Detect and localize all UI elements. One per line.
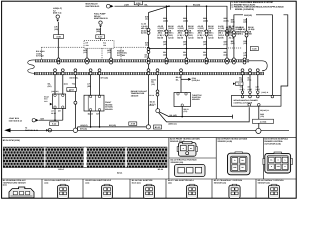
svg-text:B1-17 FUEL INJECTOR NO.4: B1-17 FUEL INJECTOR NO.4 (168, 179, 195, 182)
svg-text:(1GE)-11: (1GE)-11 (262, 91, 269, 94)
svg-text:(1G): (1G) (145, 18, 149, 21)
svg-text:(1G): (1G) (54, 28, 58, 31)
wire mid horizontal B/Y (78, 111, 149, 130)
svg-text:B2-06 B/L: B2-06 B/L (70, 76, 80, 79)
svg-text:SENSOR: SENSOR (131, 94, 139, 97)
svg-text:(1G) (1G): (1G) (1G) (51, 90, 59, 93)
connector symbol on F2 wire (46, 129, 51, 132)
svg-text:(1G): (1G) (45, 181, 49, 184)
wire main relay feed L/OR (115, 3, 228, 6)
svg-text:NO.3 (1G): NO.3 (1G) (132, 181, 141, 184)
wire G/W bracket (234, 14, 288, 28)
svg-text:SYSTEM: SYSTEM (36, 55, 44, 58)
svg-text:SENSOR: SENSOR (192, 98, 200, 101)
row1/row2 border (2, 178, 297, 180)
svg-text:SENSOR (1G): SENSOR (1G) (258, 181, 271, 184)
row1 top border (2, 137, 297, 139)
wire joint box to sensor (39, 109, 63, 121)
labels on PCM feed wire (149, 94, 154, 107)
svg-text:(1G): (1G) (224, 43, 228, 46)
row2 panel header (132, 179, 153, 184)
PCM panel header (3, 139, 20, 142)
label L/R right column (243, 52, 247, 57)
splice connector on bus 2 (98, 69, 101, 75)
svg-text:(1GE): (1GE) (248, 88, 253, 91)
svg-text:A (1GE): A (1GE) (260, 121, 267, 124)
svg-text:B/Y(1G): B/Y(1G) (109, 124, 116, 127)
row2 panel header (214, 179, 243, 184)
row2 panel header (168, 179, 195, 184)
svg-text:(1G): (1G) (260, 115, 264, 118)
splice connector on bus 1 (205, 58, 208, 64)
wire right feed column G/W (238, 18, 255, 59)
panel front heated oxygen sensor LH header (218, 138, 248, 143)
splice connector on bus 1 (185, 58, 188, 64)
svg-text:(1G): (1G) (184, 110, 188, 113)
wire fuel pump relay drop B/W (96, 28, 100, 41)
connector label B2-13 below node (154, 125, 162, 129)
splice connector on bus 1 (233, 58, 236, 64)
front heated oxygen sensor LH box (53, 94, 66, 109)
svg-text:(1GE) B-1: (1GE) B-1 (192, 79, 200, 82)
svg-text:(1G): (1G) (3, 184, 7, 187)
connector label A2 box (253, 119, 274, 123)
svg-text:(1G): (1G) (243, 42, 247, 45)
labels B/L B G/W (239, 76, 251, 81)
splice circles above actuator (241, 91, 268, 94)
splice connector on bus 1 (226, 58, 229, 64)
EGI MAIN CONN label (36, 50, 45, 57)
svg-text:(2G): (2G) (48, 85, 52, 88)
node H-06 label (53, 7, 62, 14)
svg-text:(1G): (1G) (231, 42, 235, 45)
connector label A-12 (50, 122, 59, 126)
labels below LH sensor box (51, 110, 62, 115)
splice connector on bus 2 (61, 69, 64, 75)
svg-text:(1G): (1G) (151, 83, 155, 86)
svg-text:(1G): (1G) (96, 30, 100, 33)
connector label A-07 (96, 35, 105, 39)
svg-text:L/OR: L/OR (124, 3, 129, 6)
svg-text:B2-04 PCM (1GE): B2-04 PCM (1GE) (3, 139, 20, 142)
labels under RH box (88, 112, 100, 115)
wire TPS bottom drop (181, 107, 188, 118)
svg-text:B2-05: B2-05 (178, 36, 184, 39)
svg-text:IGNITION B-11: IGNITION B-11 (94, 17, 109, 20)
svg-text:(2G): (2G) (87, 85, 91, 88)
splice connector on bus 1 (165, 58, 168, 64)
PCM grid pin labels (58, 168, 163, 175)
svg-text:B/L (4G): B/L (4G) (170, 114, 178, 117)
connector drawing fuel injector no.1 (57, 184, 68, 198)
node connector 1-1D (146, 125, 150, 129)
label B/L(1G) on top bus (193, 3, 201, 6)
svg-text:(1G): (1G) (86, 181, 90, 184)
connector drawing throttle position sensor (175, 164, 206, 176)
svg-text:B2(1GE)-11: B2(1GE)-11 (260, 109, 269, 112)
intake manifold runner control actuator box (232, 95, 282, 106)
splice connector on bus 2 (54, 69, 57, 75)
connector drawing camshaft position sensor (268, 184, 279, 198)
svg-text:(1G0): (1G0) (183, 20, 188, 23)
wire ignition coil feed column 4 (218, 6, 235, 58)
svg-text:(1G): (1G) (107, 51, 111, 54)
row2 panel header (258, 179, 284, 184)
svg-text:(1G): (1G) (163, 54, 167, 57)
connector label X-04 on relay wire (134, 1, 142, 6)
svg-text:SENSOR: SENSOR (105, 108, 113, 111)
wire drop to LH sensor terminal 1 (48, 75, 55, 94)
wire drop x157.5 to node (150, 75, 159, 109)
svg-text:IGNITION B-16: IGNITION B-16 (9, 119, 22, 122)
svg-text:(1G): (1G) (168, 181, 172, 184)
wires fuse drops to bus 1 (83, 48, 111, 58)
fuel pump relay label (94, 13, 109, 21)
splice connector on bus 2 (89, 69, 92, 75)
joint box label (9, 117, 22, 122)
svg-text:(B/W 1G): (B/W 1G) (169, 123, 177, 126)
wire ignition coil feed column 2 (178, 5, 195, 58)
connector drawing fuel injector no.2 (101, 184, 112, 198)
svg-text:SENSOR (LH,B): SENSOR (LH,B) (218, 140, 233, 143)
splice connector on bus 2 (180, 69, 183, 75)
svg-text:MODEL (CANADA): MODEL (CANADA) (235, 8, 254, 11)
svg-text:B2-05: B2-05 (158, 36, 164, 39)
splice connector on bus 2 (249, 69, 252, 75)
svg-text:B/Y(1G): B/Y(1G) (80, 127, 87, 130)
svg-text:B2-05: B2-05 (218, 36, 224, 39)
connector drawing oxygen sensor RH (177, 141, 197, 156)
svg-text:A2-16: A2-16 (208, 36, 214, 39)
wire drop to RH sensor terminal 1 (87, 75, 91, 95)
wire right feed column B/R (226, 18, 243, 59)
svg-text:B (1G): B (1G) (150, 103, 156, 106)
splice connector on bus 2 (241, 69, 244, 75)
splice connector on bus 2 (156, 69, 159, 75)
splice connector on bus 2 (256, 69, 259, 75)
svg-text:B2-13: B2-13 (155, 126, 161, 129)
off-page arrow F2 (4, 127, 38, 133)
svg-text:(1G): (1G) (183, 43, 187, 46)
svg-text:(1GE): (1GE) (255, 88, 260, 91)
svg-text:(1G): (1G) (203, 54, 207, 57)
svg-text:A2-16: A2-16 (188, 36, 194, 39)
splice connector on bus 2 (147, 69, 150, 75)
svg-text:(IGN 7-1): (IGN 7-1) (53, 12, 62, 15)
labels above LH sensor box (51, 90, 71, 93)
fuel pump relay connector symbol (99, 21, 102, 28)
wire ignition coil feed column 1 (158, 5, 175, 58)
svg-text:IGNITION B-10: IGNITION B-10 (86, 5, 101, 8)
svg-text:(1G): (1G) (243, 21, 247, 24)
node circled C (156, 109, 160, 113)
rear oxygen sensor note + arrow (44, 96, 52, 106)
splice connector on bus 1 (57, 58, 60, 64)
big node bottom right (256, 128, 261, 133)
splice connector on bus 1 (147, 58, 150, 64)
wire right tall vertical B (281, 28, 288, 95)
front heated oxygen sensor RH box (84, 95, 104, 111)
wire long bottom B/Y (11, 127, 290, 130)
svg-text:(1G): (1G) (183, 54, 187, 57)
dashed line right column (228, 47, 242, 49)
wire into TPS box (180, 79, 182, 92)
svg-text:B1-01 FUEL INJECTOR NO.1: B1-01 FUEL INJECTOR NO.1 (45, 179, 71, 182)
svg-text:A2-16: A2-16 (168, 36, 174, 39)
connector drawing fuel injector no.3 (143, 184, 154, 198)
svg-text:B2-16: B2-16 (149, 94, 154, 97)
svg-text:G/W(1G): G/W(1G) (244, 14, 252, 17)
connector label A-20 right column (250, 47, 258, 51)
node splice on bottom wire (73, 128, 77, 132)
main relay connector symbol (106, 4, 113, 8)
svg-text:MID: MID (248, 33, 252, 36)
throttle position sensor feed (176, 75, 200, 82)
engine coolant temperature sensor label (131, 90, 148, 97)
connector label A-06 on left wire (54, 35, 64, 39)
svg-text:(1G): (1G) (145, 44, 149, 47)
svg-text:(1G): (1G) (163, 43, 167, 46)
wires drop to actuator (243, 75, 258, 96)
wire actuator right drop (259, 106, 269, 128)
label B2-06 B/L mid (70, 76, 80, 79)
label right of RH box (105, 101, 113, 111)
wire drop to RH sensor terminal 2 (100, 75, 109, 95)
svg-text:SYSTEM: SYSTEM (117, 54, 125, 57)
svg-text:(1G): (1G) (224, 54, 228, 57)
splice connector on bus 1 (243, 58, 246, 64)
dashed harness boundary line (42, 47, 149, 59)
throttle position sensor box (174, 93, 191, 107)
joint box connector symbol (32, 119, 39, 122)
connector drawing coolant temp sensor (9, 187, 34, 198)
harness bus bar 1 (28, 60, 268, 74)
panel front heated oxygen sensor RH header (170, 138, 200, 143)
svg-text:(1G): (1G) (243, 54, 247, 57)
EGI fuse block dashed enclosure (84, 41, 114, 49)
connector label A-05 on mid wire (129, 122, 137, 126)
svg-text:B/Y (1G): B/Y (1G) (101, 76, 109, 79)
connector drawing fuel injector no.4 (186, 184, 197, 198)
svg-text:(1G): (1G) (231, 21, 235, 24)
svg-text:B2-05: B2-05 (141, 32, 146, 35)
row2 panel header (3, 179, 27, 186)
svg-text:B/L(1G): B/L(1G) (193, 3, 201, 6)
connector drawing runner control actuator (263, 152, 293, 173)
svg-text:ACTUATOR (1GE): ACTUATOR (1GE) (264, 142, 281, 145)
main relay label (86, 3, 101, 8)
splice connector on bus 1 (86, 58, 89, 64)
wire long vertical feed x=148.5 (141, 13, 150, 126)
svg-text:B/W: B/W (41, 117, 45, 120)
svg-text:Y/G: Y/G (72, 83, 76, 86)
wire fan to B/W lower (159, 107, 250, 126)
svg-text:(1G): (1G) (203, 43, 207, 46)
svg-text:SENSOR (1G): SENSOR (1G) (214, 181, 227, 184)
connector symbol top-left wire (56, 15, 59, 22)
svg-text:A-B1: A-B1 (67, 90, 71, 93)
wire ignition coil feed column 3 (198, 5, 215, 58)
connector label mid B-02 (67, 88, 77, 92)
PCM ignition label (117, 49, 127, 56)
panel intake manifold runner control header (264, 138, 288, 146)
labels above actuator (240, 85, 261, 90)
panel throttle position sensor header (171, 159, 198, 164)
wire drop Y/G with splice (72, 75, 77, 131)
svg-text:(1G): (1G) (64, 83, 68, 86)
connector drawing oxygen sensor LH (228, 152, 251, 175)
svg-text:(1GE): (1GE) (240, 88, 245, 91)
wire L/R drop to bus (54, 22, 58, 59)
row1 dividers (169, 138, 264, 179)
wire interconnect across coil columns (149, 48, 228, 50)
svg-text:B2-05: B2-05 (198, 36, 204, 39)
wire drop to LH sensor terminal 2 (63, 75, 68, 94)
wire right tall vertical A (271, 18, 273, 95)
TPS label (192, 94, 202, 101)
splice connector on bus 2 (74, 69, 77, 75)
svg-text:B/Y(1G): B/Y(1G) (81, 124, 88, 127)
harness bus bar 2 (34, 72, 264, 74)
svg-text:(1G): (1G) (248, 79, 252, 82)
legend notes block (230, 1, 284, 11)
svg-text:(1G): (1G) (83, 51, 87, 54)
svg-text:(1G0): (1G0) (203, 20, 208, 23)
svg-text:(1G0): (1G0) (224, 20, 229, 23)
svg-text:SENSOR (1G): SENSOR (1G) (171, 161, 184, 164)
row2 panel header (45, 179, 71, 184)
row2 panel header (86, 179, 112, 184)
splice connector on bus 1 (110, 58, 113, 64)
connector drawing crankshaft position sensor (229, 184, 240, 198)
fuse A/B 10A with arrow (233, 82, 243, 86)
svg-text:(1G0): (1G0) (163, 20, 168, 23)
wire fan to B/L(4G) (159, 112, 232, 119)
row2 dividers (42, 179, 256, 198)
junction to PCM feed (149, 5, 170, 12)
svg-text:B1-08 FUEL INJECTOR NO.2: B1-08 FUEL INJECTOR NO.2 (86, 179, 112, 182)
